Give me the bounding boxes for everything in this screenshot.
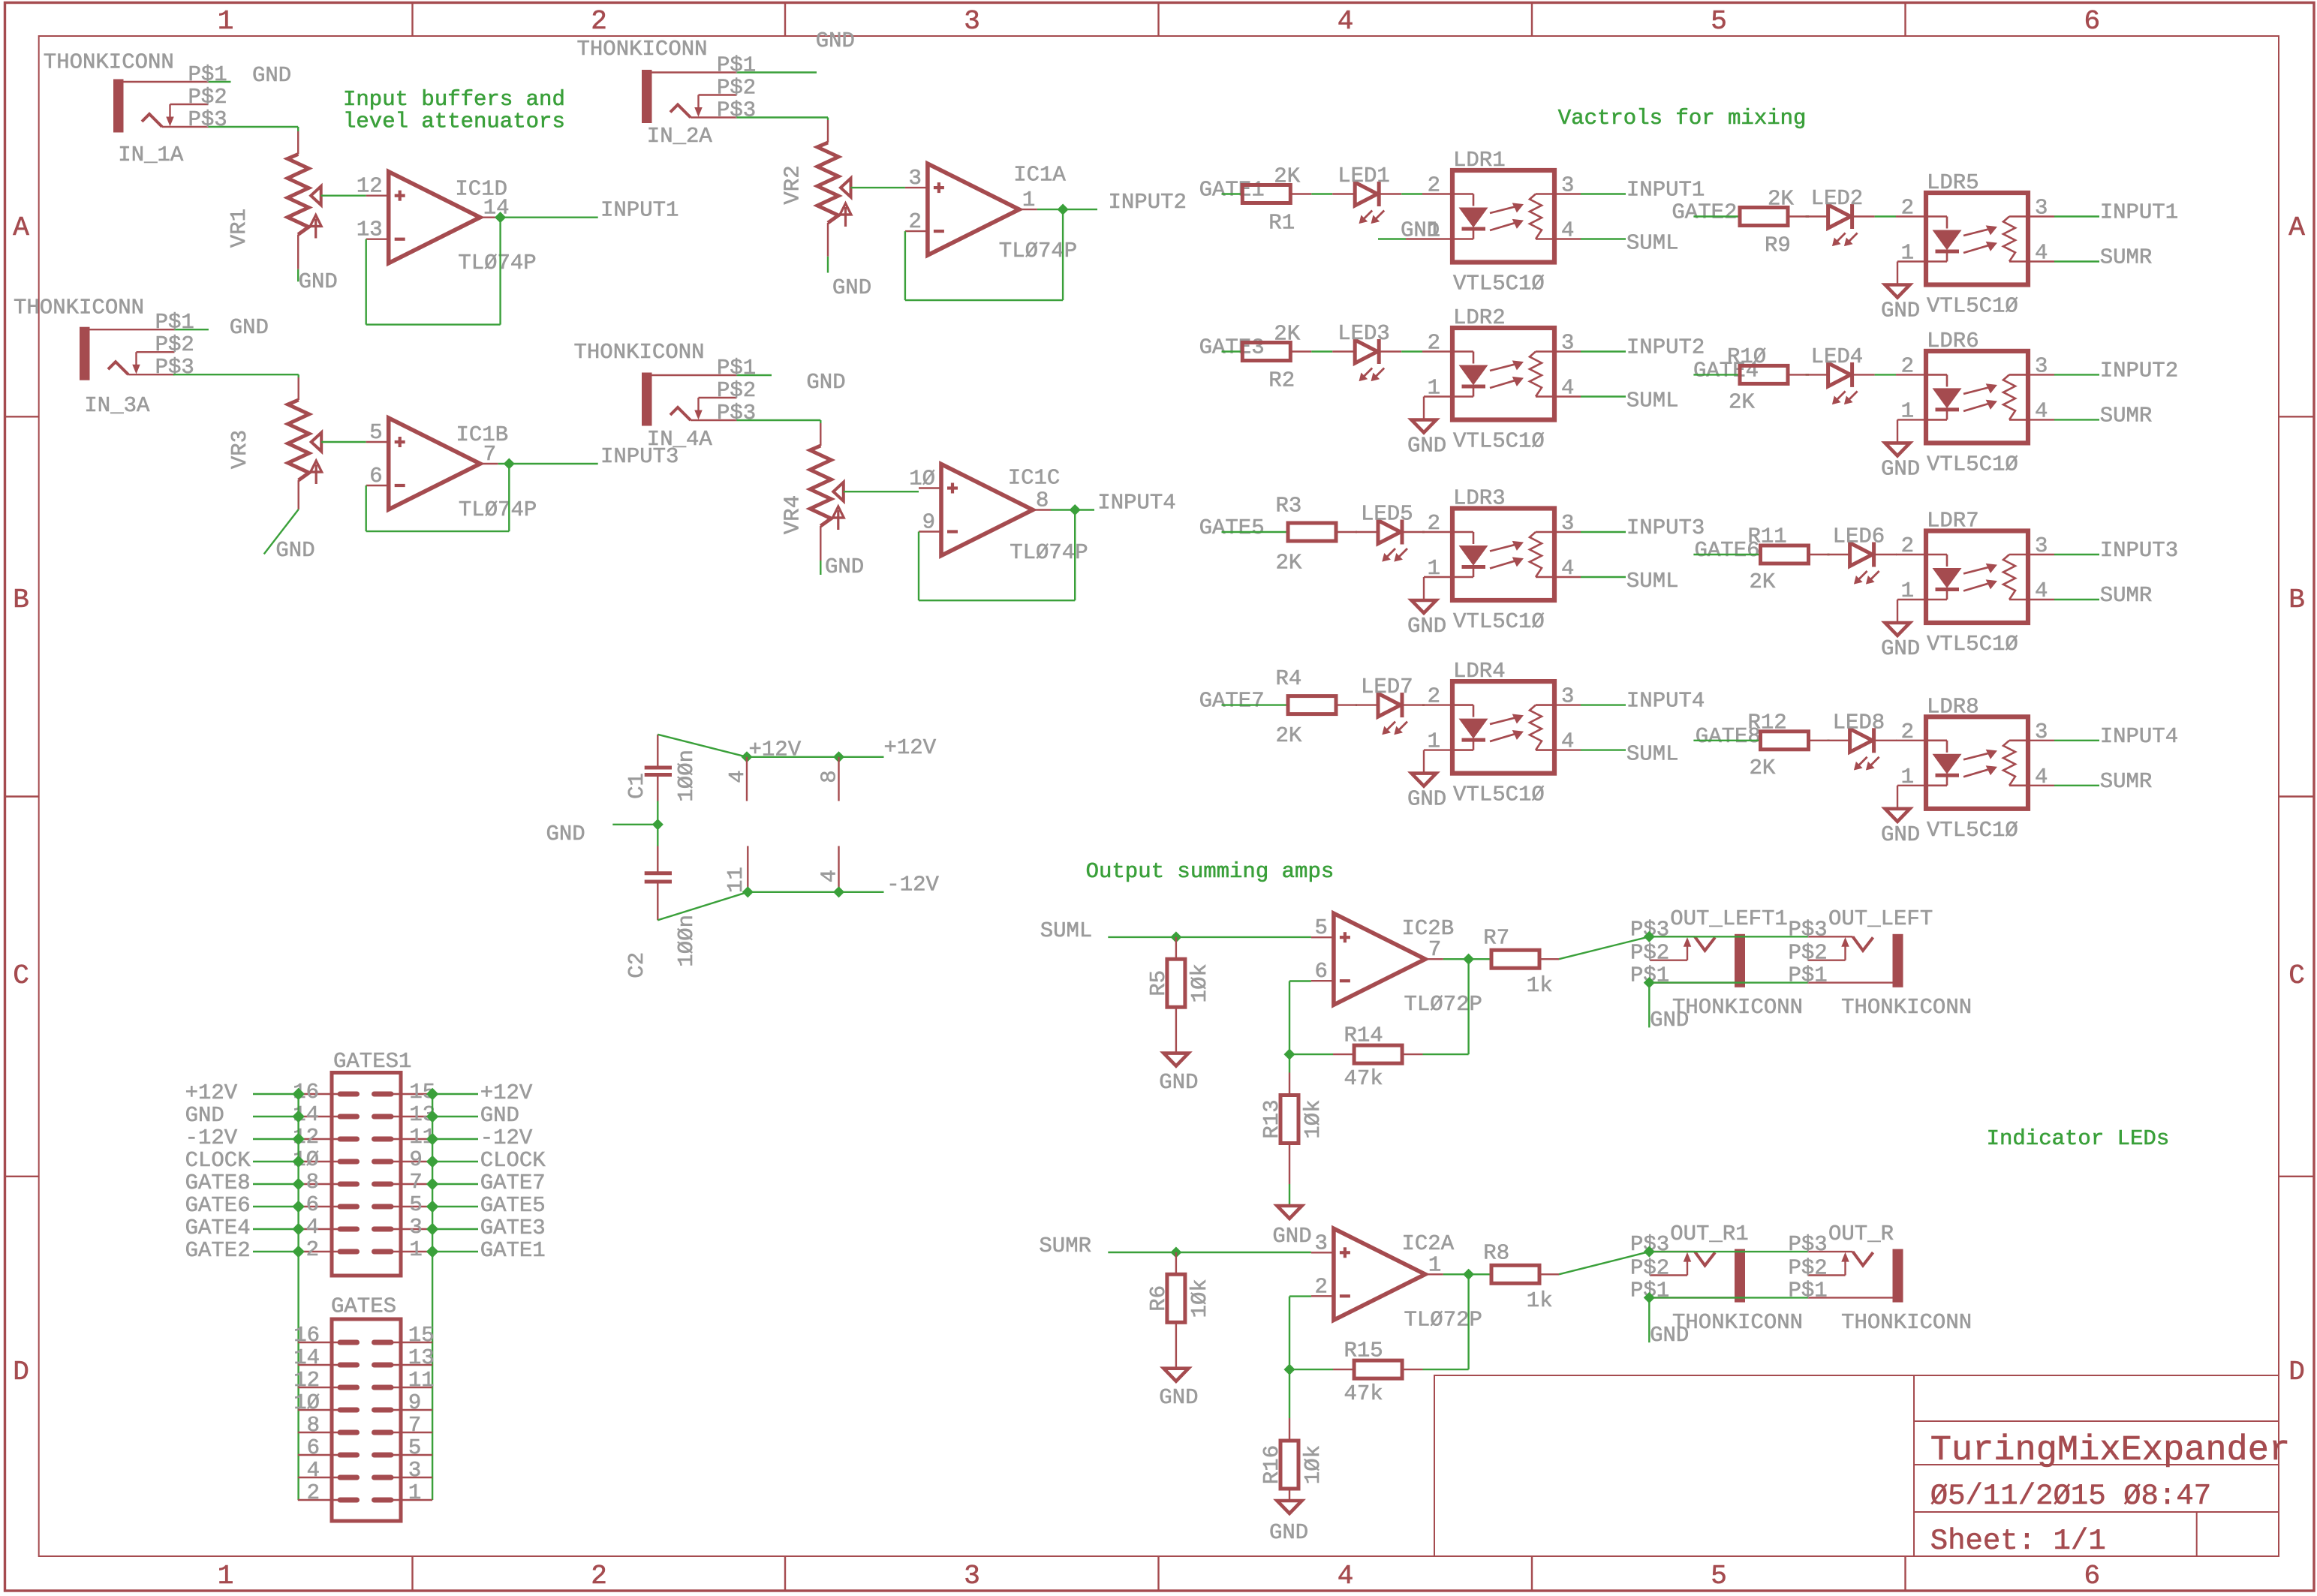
wire LED1 to LDR1	[1379, 193, 1401, 194]
wire GATES1 left bus	[297, 1094, 299, 1500]
wire junction to IC2B -	[1289, 981, 1290, 1055]
GATES pin 15	[391, 1342, 432, 1343]
wire LDR3 pin3 to INPUT3	[1581, 531, 1626, 533]
svg-text:R5: R5	[1146, 970, 1171, 996]
resistor R8 1k	[1491, 1265, 1539, 1283]
GATES1 pin 11 (-12V)	[391, 1138, 432, 1140]
svg-text:B: B	[13, 585, 29, 615]
GATES1 pin 4 (GATE4)	[299, 1228, 340, 1230]
op-amp IC1D	[366, 195, 389, 197]
GATES pin 6	[298, 1454, 340, 1456]
svg-text:1: 1	[408, 1480, 421, 1505]
svg-text:2: 2	[908, 209, 921, 234]
IC1 power pin 11	[747, 846, 748, 892]
wire IC1A output to INPUT2	[1037, 209, 1097, 210]
svg-text:R2: R2	[1268, 368, 1295, 393]
svg-text:3: 3	[1314, 1231, 1327, 1255]
svg-text:3: 3	[2035, 720, 2048, 744]
svg-text:LDR8: LDR8	[1927, 694, 1979, 719]
wire LED4 to LDR6	[1852, 374, 1875, 375]
LED LED6	[1850, 543, 1873, 567]
svg-text:R9: R9	[1765, 233, 1791, 258]
svg-text:8: 8	[817, 770, 842, 783]
junction R15 / R16	[1286, 1366, 1293, 1373]
svg-text:IC2B: IC2B	[1402, 916, 1455, 941]
GATES1 pin 5 (GATE5)	[391, 1206, 432, 1207]
wire LED8 to LDR8	[1874, 740, 1897, 741]
junction IC1D output	[497, 214, 504, 221]
svg-text:GND: GND	[252, 63, 291, 88]
wire VR2 wiper to IC1A	[851, 187, 905, 188]
GATES pin 16	[298, 1342, 340, 1343]
IC2 power pin 4	[838, 846, 839, 892]
svg-text:4: 4	[817, 870, 842, 882]
svg-text:4: 4	[1338, 1561, 1354, 1591]
GATES1 pin 14 (GND)	[299, 1116, 340, 1117]
svg-text:SUML: SUML	[1626, 569, 1679, 594]
svg-text:47k: 47k	[1344, 1381, 1383, 1406]
svg-text:GND: GND	[832, 275, 871, 300]
svg-text:IC1A: IC1A	[1013, 162, 1066, 187]
svg-text:C: C	[2288, 960, 2305, 991]
ground R13-GND	[1277, 1206, 1302, 1219]
svg-text:GATES1: GATES1	[333, 1049, 411, 1074]
svg-text:Vactrols for mixing: Vactrols for mixing	[1558, 106, 1807, 131]
svg-text:SUMR: SUMR	[1039, 1234, 1091, 1258]
svg-text:LED5: LED5	[1361, 502, 1413, 527]
wire LDR4 pin3 to INPUT4	[1581, 704, 1626, 705]
wire LDR2 pin3 to INPUT2	[1581, 350, 1626, 352]
svg-text:IC1D: IC1D	[455, 177, 507, 202]
svg-text:14: 14	[293, 1345, 320, 1370]
svg-text:GND: GND	[299, 269, 338, 294]
svg-text:GATE4: GATE4	[185, 1216, 251, 1240]
resistor R5 10k	[1175, 937, 1177, 959]
svg-text:2K: 2K	[1276, 723, 1302, 748]
svg-text:LED6: LED6	[1833, 524, 1885, 549]
connector GATES	[332, 1319, 401, 1521]
svg-text:3: 3	[408, 1458, 421, 1483]
svg-text:3: 3	[1561, 173, 1574, 198]
svg-text:GATE5: GATE5	[480, 1193, 546, 1218]
GATES pin 2	[298, 1499, 340, 1501]
LED LED1	[1355, 182, 1377, 206]
svg-text:R1: R1	[1268, 211, 1295, 236]
wire VR1 bottom to GND	[297, 235, 299, 269]
junction IC1B output	[505, 460, 513, 467]
svg-text:3: 3	[2035, 534, 2048, 558]
ground LDR4-GND	[1412, 774, 1437, 786]
svg-text:VTL5C1Ø: VTL5C1Ø	[1927, 452, 2018, 476]
svg-text:CLOCK: CLOCK	[185, 1148, 251, 1173]
GATES1 pin 16 (+12V)	[299, 1093, 340, 1095]
op-amp IC1C	[919, 487, 941, 488]
GATES1 pin 8 (GATE8)	[299, 1183, 340, 1185]
svg-text:5: 5	[369, 420, 382, 445]
svg-text:TLØ74P: TLØ74P	[458, 251, 536, 275]
wire C2 bottom diagonal to -12V rail	[657, 892, 748, 921]
svg-text:2K: 2K	[1768, 187, 1794, 212]
svg-text:INPUT3: INPUT3	[2100, 538, 2178, 563]
svg-text:1Øk: 1Øk	[1301, 1445, 1326, 1484]
potentiometer VR1	[287, 155, 308, 235]
svg-text:INPUT1: INPUT1	[2100, 200, 2178, 225]
svg-text:11: 11	[408, 1368, 435, 1393]
svg-text:IN_3A: IN_3A	[84, 393, 150, 418]
svg-text:VTL5C1Ø: VTL5C1Ø	[1453, 783, 1545, 807]
svg-text:VTL5C1Ø: VTL5C1Ø	[1453, 429, 1545, 454]
svg-text:1k: 1k	[1527, 973, 1553, 998]
wire IC1C output to INPUT4	[1051, 509, 1094, 510]
frame row ticks right	[2279, 416, 2314, 417]
svg-text:TLØ72P: TLØ72P	[1404, 1307, 1482, 1332]
svg-text:SUMR: SUMR	[2100, 769, 2153, 794]
wire R12 to LED8	[1809, 740, 1830, 741]
wire R2 to LED3	[1290, 350, 1311, 352]
svg-text:P$1: P$1	[717, 53, 756, 78]
svg-text:8: 8	[307, 1413, 320, 1438]
wire +12V rail	[747, 756, 884, 758]
svg-text:P$2: P$2	[1789, 1256, 1828, 1281]
svg-text:GND: GND	[1407, 434, 1446, 458]
svg-text:SUMR: SUMR	[2100, 245, 2153, 270]
svg-text:+12V: +12V	[749, 737, 802, 762]
svg-text:GND: GND	[1881, 299, 1920, 323]
wire GATE6 stub	[1693, 554, 1760, 555]
svg-text:47k: 47k	[1344, 1066, 1383, 1091]
svg-text:THONKICONN: THONKICONN	[1672, 995, 1803, 1020]
svg-text:GATE3: GATE3	[1199, 335, 1265, 360]
svg-text:2: 2	[1428, 331, 1440, 356]
svg-text:2: 2	[1901, 196, 1914, 221]
svg-text:4: 4	[306, 1215, 319, 1240]
wire IC2B feedback down	[1467, 959, 1469, 1054]
svg-text:9: 9	[409, 1147, 422, 1172]
svg-text:GND: GND	[546, 822, 585, 846]
svg-text:-12V: -12V	[185, 1126, 238, 1150]
wire LDR8 pin3 to INPUT4	[2054, 740, 2099, 741]
GATES1 pin 13 (GND)	[391, 1116, 432, 1117]
svg-text:GND: GND	[1407, 614, 1446, 639]
svg-text:R15: R15	[1344, 1339, 1383, 1363]
junction power GND node	[654, 821, 661, 828]
wire R8 to OUT_R1 diagonal	[1539, 1273, 1559, 1275]
svg-text:P$1: P$1	[155, 310, 194, 335]
svg-text:3: 3	[908, 166, 921, 191]
potentiometer VR3	[288, 400, 309, 480]
resistor R6 10k	[1175, 1252, 1177, 1274]
connector GATES1	[332, 1073, 401, 1276]
wire C1 top diagonal to +12V rail	[657, 735, 747, 757]
svg-text:16: 16	[293, 1323, 320, 1348]
resistor R13 10k	[1289, 1073, 1290, 1096]
GATES pin 1	[391, 1499, 432, 1501]
svg-text:4: 4	[2035, 398, 2048, 423]
svg-text:VTL5C1Ø: VTL5C1Ø	[1927, 294, 2018, 319]
IC2 power pin 8	[838, 757, 839, 801]
svg-text:THONKICONN: THONKICONN	[1841, 1310, 1972, 1335]
vactrol LDR4 VTL5C10	[1452, 681, 1554, 774]
LED LED3	[1355, 340, 1377, 363]
LED LED5	[1378, 521, 1401, 544]
svg-text:VTL5C1Ø: VTL5C1Ø	[1453, 609, 1545, 634]
svg-text:3: 3	[409, 1215, 422, 1240]
svg-text:TLØ74P: TLØ74P	[1010, 540, 1088, 565]
junction IC1C output	[1071, 506, 1079, 514]
svg-text:5: 5	[1711, 6, 1727, 37]
wire R1 to LED1	[1290, 193, 1311, 194]
svg-text:VR2: VR2	[781, 165, 805, 204]
wire P$3 bus row D	[1649, 1251, 1807, 1252]
svg-text:4: 4	[2035, 241, 2048, 266]
GATES1 pin 9 (CLOCK)	[391, 1161, 432, 1162]
svg-text:INPUT2: INPUT2	[1626, 335, 1705, 360]
svg-text:OUT_LEFT: OUT_LEFT	[1828, 906, 1933, 931]
svg-text:3: 3	[1561, 684, 1574, 709]
title block	[1434, 1375, 2279, 1556]
svg-text:1: 1	[1022, 188, 1035, 212]
svg-text:GND: GND	[1407, 787, 1446, 812]
LED LED8	[1850, 729, 1873, 752]
svg-text:4: 4	[1561, 218, 1574, 243]
wire VR1 wiper to IC1D	[321, 195, 366, 197]
svg-text:GND: GND	[230, 315, 269, 340]
svg-text:TuringMixExpander: TuringMixExpander	[1930, 1431, 2290, 1471]
svg-text:9: 9	[922, 510, 935, 535]
vactrol LDR5 VTL5C10	[1926, 193, 2028, 285]
svg-text:LED4: LED4	[1811, 344, 1864, 369]
svg-text:GND: GND	[825, 555, 864, 579]
svg-text:13: 13	[408, 1345, 435, 1370]
svg-text:SUML: SUML	[1626, 389, 1679, 413]
potentiometer VR4	[810, 446, 831, 526]
svg-text:3: 3	[1561, 511, 1574, 536]
wire C1 to GND node	[657, 801, 658, 825]
GATES pin 9	[391, 1409, 432, 1411]
vactrol LDR6 VTL5C10	[1926, 351, 2028, 443]
svg-text:4: 4	[307, 1458, 320, 1483]
capacitor C2	[657, 846, 658, 872]
svg-text:2K: 2K	[1729, 389, 1755, 414]
svg-text:1Øk: 1Øk	[1187, 1279, 1212, 1318]
svg-text:IN_1A: IN_1A	[118, 143, 184, 167]
svg-text:1Ø: 1Ø	[293, 1390, 320, 1415]
jack OUT_LEFT1	[1735, 934, 1745, 987]
svg-text:1: 1	[1428, 1252, 1441, 1277]
svg-text:GATE8: GATE8	[185, 1171, 251, 1195]
svg-text:INPUT1: INPUT1	[600, 198, 679, 223]
frame row ticks left	[5, 416, 39, 417]
jack OUT_R	[1893, 1249, 1903, 1303]
op-amp IC1A	[905, 187, 928, 188]
svg-text:11: 11	[724, 867, 748, 893]
GATES pin 13	[391, 1364, 432, 1366]
wire LED7 to LDR4	[1402, 704, 1425, 705]
svg-text:VR1: VR1	[227, 209, 251, 248]
GATES pin 4	[298, 1477, 340, 1478]
jack IN_3A	[80, 327, 90, 380]
svg-text:level attenuators: level attenuators	[343, 110, 565, 134]
GATES1 pin 15 (+12V)	[391, 1093, 432, 1095]
svg-text:2: 2	[1901, 720, 1914, 744]
svg-text:C1: C1	[624, 773, 649, 799]
svg-text:5: 5	[1314, 915, 1327, 940]
LED LED7	[1378, 693, 1401, 717]
resistor R9 2K	[1740, 208, 1788, 226]
GATES1 pin 12 (-12V)	[299, 1138, 340, 1140]
wire feedback to R15	[1423, 1369, 1469, 1370]
svg-text:GND: GND	[185, 1103, 224, 1128]
wire GATES1 right bus	[432, 1094, 433, 1500]
junction SUMR / R6	[1172, 1249, 1180, 1256]
wire LDR1 pin4 to SUML	[1581, 238, 1626, 239]
wire GATE4 stub	[1693, 374, 1740, 375]
svg-text:TLØ74P: TLØ74P	[999, 239, 1077, 263]
wire IN_3A P$3 to VR3	[173, 374, 299, 375]
svg-text:INPUT4: INPUT4	[1097, 491, 1175, 515]
wire LED6 to LDR7	[1874, 554, 1897, 555]
svg-text:VTL5C1Ø: VTL5C1Ø	[1453, 272, 1545, 296]
svg-text:5: 5	[408, 1435, 421, 1460]
IC1 power pin 4	[746, 757, 748, 801]
svg-text:GND: GND	[1650, 1008, 1689, 1032]
svg-text:INPUT1: INPUT1	[1626, 178, 1705, 203]
svg-text:1: 1	[218, 6, 234, 37]
svg-text:C2: C2	[624, 952, 649, 978]
wire IN_2A P$3 to VR2	[737, 116, 829, 118]
svg-text:R11: R11	[1748, 524, 1787, 549]
junction SUML / R5	[1172, 933, 1180, 941]
svg-text:8: 8	[1036, 488, 1049, 513]
wire -12V rail	[748, 891, 883, 893]
svg-text:GND: GND	[1159, 1070, 1198, 1095]
svg-text:A: A	[13, 212, 29, 243]
svg-text:4: 4	[1561, 729, 1574, 754]
junction +12V at IC1 pin 4	[743, 753, 751, 761]
svg-text:Output summing amps: Output summing amps	[1086, 859, 1335, 884]
potentiometer VR2	[817, 143, 838, 223]
wire LED2 to LDR5	[1852, 215, 1875, 217]
svg-text:3: 3	[964, 6, 980, 37]
resistor R2 2K	[1242, 343, 1290, 361]
svg-text:LDR5: LDR5	[1927, 170, 1979, 195]
svg-text:P$2: P$2	[1630, 1256, 1669, 1281]
svg-text:8: 8	[306, 1170, 319, 1195]
resistor R16 10k	[1289, 1418, 1290, 1441]
svg-text:4: 4	[1561, 376, 1574, 401]
wire OUT_R1 P$1 to GND	[1648, 1297, 1650, 1342]
svg-text:1ØØn: 1ØØn	[674, 750, 699, 802]
GATES pin 3	[391, 1477, 432, 1478]
resistor R11 2K	[1761, 546, 1809, 564]
svg-text:2: 2	[1314, 1274, 1327, 1299]
svg-text:VR4: VR4	[781, 495, 805, 534]
wire GATE7 stub	[1222, 704, 1289, 705]
svg-text:GND: GND	[806, 370, 845, 395]
junction -12V at IC1 pin 11	[744, 888, 751, 896]
ground LDR3-GND	[1412, 600, 1437, 613]
wire GND to power node	[612, 824, 657, 825]
svg-text:VR3: VR3	[227, 430, 252, 469]
GATES1 pin 6 (GATE6)	[299, 1206, 340, 1207]
svg-text:LDR4: LDR4	[1453, 659, 1506, 684]
op-amp IC2B	[1311, 936, 1334, 938]
wire IC1D feedback	[366, 239, 367, 325]
svg-text:IN_4A: IN_4A	[647, 427, 713, 452]
svg-text:P$2: P$2	[1789, 941, 1828, 966]
svg-text:P$1: P$1	[188, 62, 227, 87]
wire GATE2 stub	[1693, 215, 1740, 217]
wire LDR7 pin4 to SUMR	[2054, 599, 2099, 600]
wire junction down to R16	[1289, 1369, 1290, 1418]
svg-text:13: 13	[357, 218, 383, 242]
svg-text:LDR7: LDR7	[1927, 509, 1979, 534]
vactrol LDR7 VTL5C10	[1926, 531, 2028, 624]
wire VR3 wiper to IC1B	[321, 441, 366, 443]
capacitor C1	[657, 735, 658, 766]
svg-text:4: 4	[2035, 765, 2048, 789]
svg-text:3: 3	[964, 1561, 980, 1591]
svg-text:4: 4	[2035, 579, 2048, 603]
svg-text:LED3: LED3	[1338, 321, 1390, 346]
svg-text:6: 6	[307, 1435, 320, 1460]
svg-text:GND: GND	[816, 29, 855, 53]
svg-text:P$2: P$2	[1630, 941, 1669, 966]
svg-text:GND: GND	[1881, 822, 1920, 847]
wire junction to IC2A -	[1289, 1297, 1290, 1370]
svg-text:R8: R8	[1483, 1241, 1509, 1266]
ground LDR5-GND	[1885, 285, 1910, 298]
wire IC1A feedback	[904, 231, 906, 300]
wire VR2 bottom to GND	[827, 223, 829, 257]
frame column ticks bottom	[411, 1556, 413, 1591]
wire P$3 bus row C	[1649, 936, 1807, 937]
vactrol LDR3 VTL5C10	[1452, 509, 1554, 601]
vactrol LDR8 VTL5C10	[1926, 717, 2028, 809]
wire R10 to LED4	[1788, 374, 1809, 375]
resistor R14 47k	[1402, 1053, 1422, 1055]
wire SUML to IC2B +	[1108, 936, 1311, 938]
svg-text:3: 3	[2035, 196, 2048, 221]
GATES pin 14	[298, 1364, 340, 1366]
svg-text:P$3: P$3	[188, 107, 227, 132]
jack IN_1A	[113, 80, 124, 133]
ground LDR8-GND	[1885, 809, 1910, 822]
ground LDR6-GND	[1885, 443, 1910, 455]
wire LDR6 pin4 to SUMR	[2054, 419, 2099, 420]
svg-text:VTL5C1Ø: VTL5C1Ø	[1927, 632, 2018, 657]
wire P$1 bus row D	[1649, 1297, 1807, 1298]
svg-text:R16: R16	[1259, 1445, 1284, 1484]
svg-text:D: D	[13, 1357, 29, 1387]
svg-text:LDR6: LDR6	[1927, 329, 1979, 353]
vactrol LDR2 VTL5C10	[1452, 328, 1554, 420]
ground R6-GND	[1163, 1369, 1188, 1381]
junction R14 / R13	[1286, 1050, 1293, 1058]
wire IC1B feedback	[366, 485, 367, 531]
svg-text:2: 2	[307, 1480, 320, 1505]
op-amp IC2A	[1311, 1252, 1334, 1253]
wire junction down to R13	[1289, 1054, 1290, 1072]
svg-text:6: 6	[1314, 959, 1327, 984]
wire GATE3 stub	[1222, 350, 1243, 352]
wire IC2B out to R7	[1469, 958, 1491, 960]
svg-text:INPUT3: INPUT3	[1626, 515, 1705, 540]
svg-text:2K: 2K	[1274, 322, 1300, 347]
op-amp IC1B	[366, 441, 389, 443]
GATES pin 11	[391, 1387, 432, 1388]
wire LDR4 pin4 to SUML	[1581, 749, 1626, 750]
